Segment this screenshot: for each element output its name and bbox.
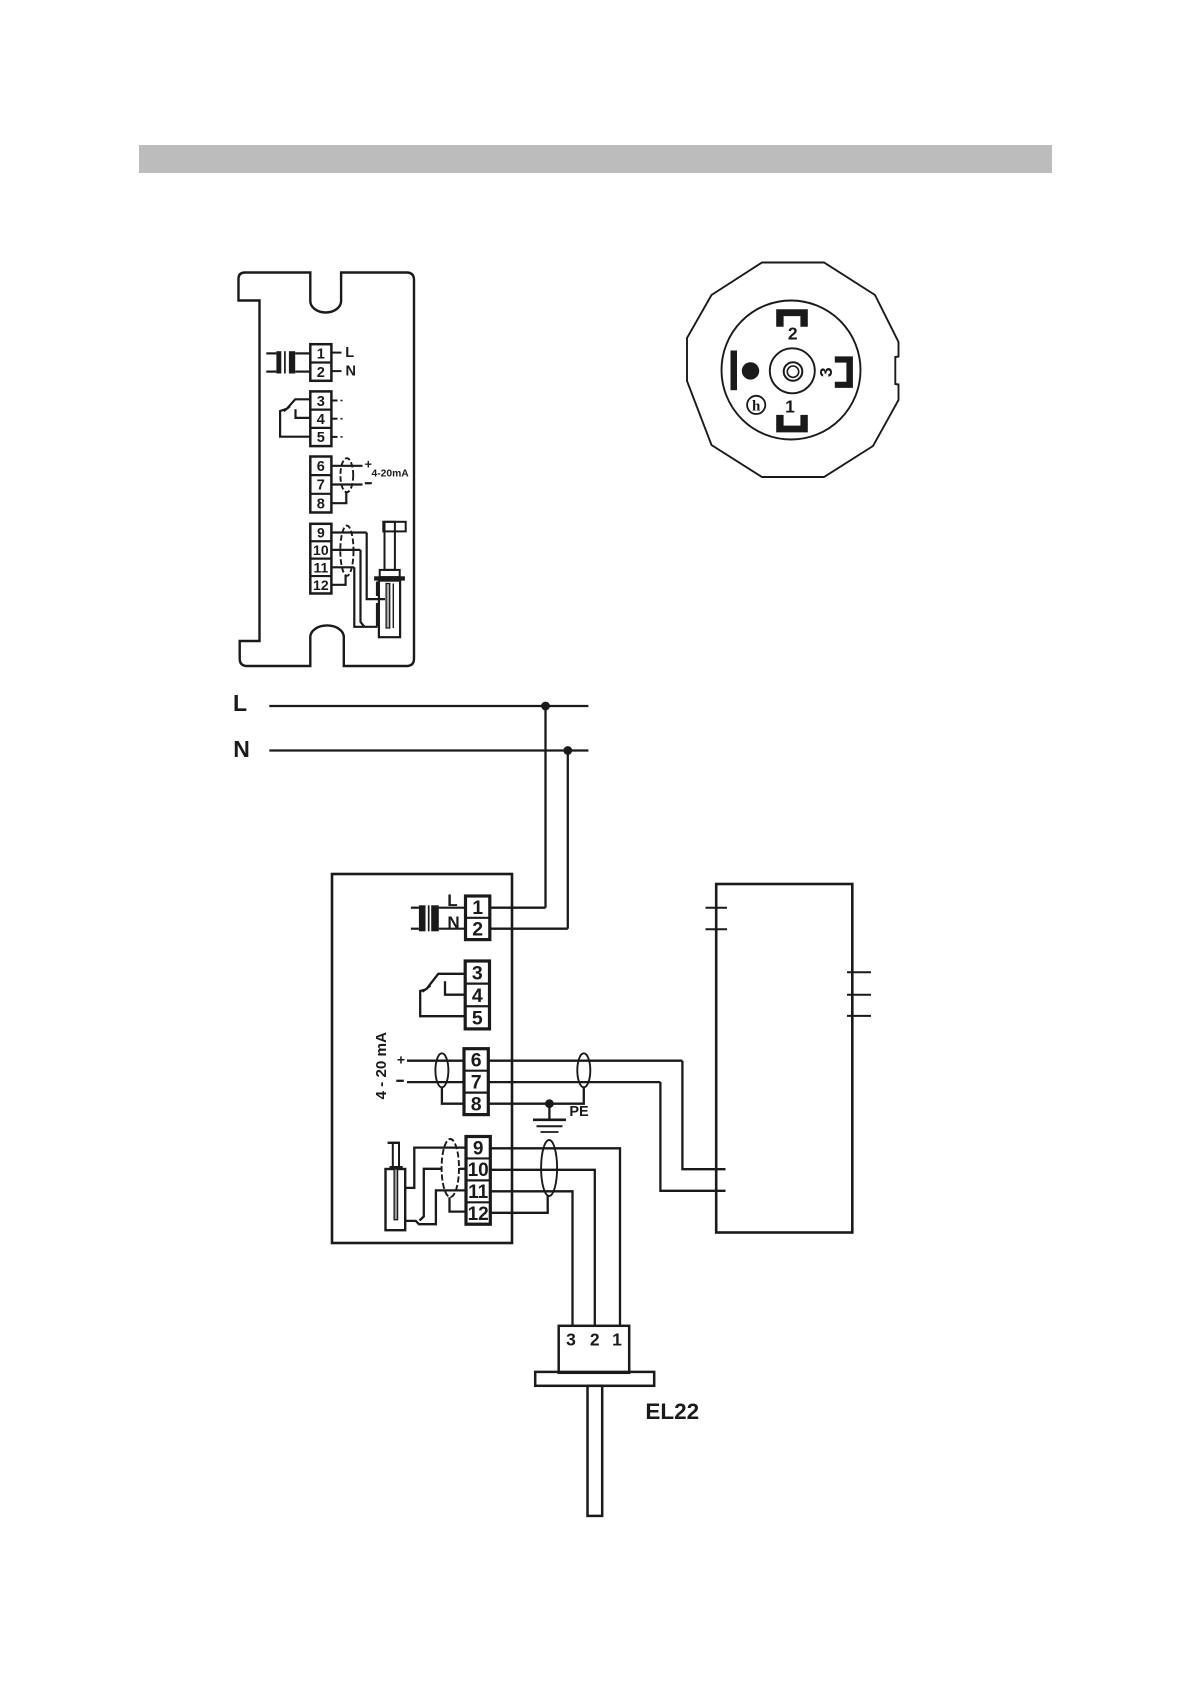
svg-text:PE: PE: [569, 1104, 589, 1120]
svg-text:3: 3: [566, 1329, 576, 1349]
svg-text:1: 1: [472, 897, 483, 919]
svg-text:5: 5: [472, 1008, 483, 1030]
svg-text:N: N: [346, 364, 356, 380]
svg-text:9: 9: [317, 525, 325, 541]
svg-text:8: 8: [471, 1094, 482, 1116]
svg-text:9: 9: [473, 1138, 484, 1159]
svg-text:6: 6: [317, 459, 325, 475]
svg-text:4: 4: [317, 412, 326, 428]
svg-text:3: 3: [472, 962, 483, 984]
svg-text:11: 11: [468, 1182, 489, 1203]
svg-text:L: L: [233, 690, 247, 716]
svg-text:8: 8: [317, 496, 325, 512]
svg-text:2: 2: [317, 365, 325, 381]
svg-text:N: N: [233, 736, 250, 762]
svg-text:5: 5: [317, 430, 325, 446]
svg-text:7: 7: [317, 478, 325, 494]
svg-text:10: 10: [468, 1160, 489, 1181]
svg-text:4: 4: [472, 985, 483, 1007]
svg-text:L: L: [345, 345, 354, 361]
svg-text:h: h: [752, 398, 761, 414]
svg-text:EL22: EL22: [645, 1399, 699, 1424]
svg-text:10: 10: [313, 542, 329, 558]
svg-text:+: +: [397, 1051, 405, 1067]
svg-text:12: 12: [468, 1204, 489, 1225]
svg-text:1: 1: [317, 347, 325, 363]
svg-text:7: 7: [471, 1072, 482, 1094]
svg-text:11: 11: [313, 559, 328, 575]
svg-text:1: 1: [612, 1329, 622, 1349]
svg-text:12: 12: [313, 577, 329, 593]
svg-text:1: 1: [785, 397, 795, 417]
svg-text:2: 2: [788, 323, 798, 343]
svg-text:3: 3: [317, 394, 325, 410]
svg-text:3: 3: [816, 367, 836, 377]
svg-text:4-20mA: 4-20mA: [372, 469, 410, 480]
svg-text:6: 6: [471, 1050, 482, 1072]
svg-text:4 - 20 mA: 4 - 20 mA: [373, 1032, 390, 1100]
svg-text:2: 2: [472, 919, 483, 941]
svg-text:2: 2: [590, 1329, 600, 1349]
